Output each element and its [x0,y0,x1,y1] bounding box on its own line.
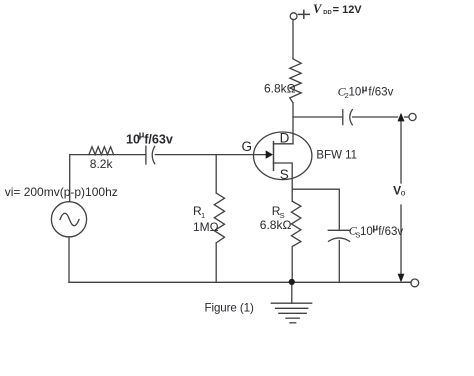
svg-text:10: 10 [349,87,362,99]
svg-text:BFW 11: BFW 11 [316,150,357,162]
svg-text:G: G [242,139,253,154]
svg-text:f/63v: f/63v [378,226,403,238]
svg-text:vi= 200mv(p-p)100hz: vi= 200mv(p-p)100hz [5,185,118,199]
svg-text:f/63v: f/63v [368,87,393,99]
svg-text:S: S [280,167,289,182]
svg-text:DD: DD [323,10,331,16]
svg-text:f/63v: f/63v [144,133,173,147]
svg-text:10: 10 [360,226,373,238]
svg-text:1: 1 [201,211,205,220]
svg-text:Figure (1): Figure (1) [205,301,254,314]
svg-text:o: o [401,188,406,198]
svg-text:6.8kΩ: 6.8kΩ [264,81,296,95]
svg-text:1MΩ: 1MΩ [193,220,219,234]
svg-text:8.2k: 8.2k [90,157,114,171]
svg-text:μ: μ [362,83,368,94]
svg-text:6.8kΩ: 6.8kΩ [260,218,292,232]
svg-text:D: D [280,130,290,145]
svg-text:= 12V: = 12V [333,4,363,16]
